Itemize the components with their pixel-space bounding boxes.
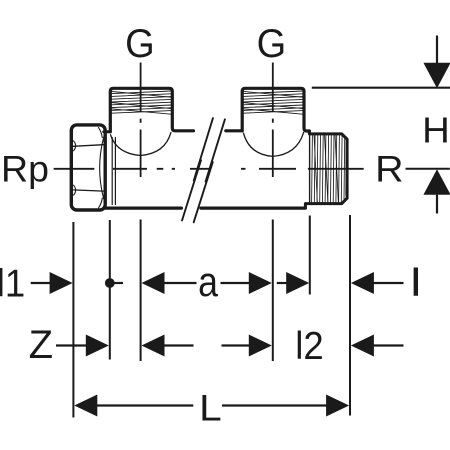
hex nut chamfer arc middle face right <box>100 137 104 199</box>
svg-text:l: l <box>410 262 421 304</box>
break line lower pair <box>182 160 201 220</box>
socket end line 2 (nut/body joint) <box>114 138 116 205</box>
bore arc under port G2 <box>244 132 304 156</box>
row1 a right arrowhead <box>249 272 272 294</box>
H dimension down-arrow stem <box>436 36 438 64</box>
dimension row 3: L left stem <box>97 404 194 406</box>
extension line E3 (port G1 axis) <box>140 220 142 362</box>
hex nut face line lower <box>73 190 104 191</box>
hex nut chamfer arc left lower <box>74 185 76 195</box>
extension line E5 (thread start) <box>309 216 311 295</box>
dimension row 2: Z leader line <box>56 344 86 346</box>
row1 reference dot <box>105 278 115 288</box>
break line upper pair <box>194 118 213 180</box>
hex nut face line upper <box>73 145 104 147</box>
port G2 vertical centerline <box>272 63 274 178</box>
row2 right arrowhead <box>249 335 272 357</box>
H dimension up arrowhead <box>423 169 450 194</box>
hex nut (Rp union nut) outer outline <box>71 125 105 210</box>
port G1 thread hatch <box>112 91 172 114</box>
port G1 vertical centerline <box>140 63 142 178</box>
extension line E6 (thread end) <box>349 215 351 416</box>
port G2 outline <box>242 88 309 131</box>
svg-text:G: G <box>125 22 155 66</box>
dimension row 1: dot stub <box>110 282 123 284</box>
svg-text:a: a <box>198 259 218 305</box>
port G2 thread hatch <box>243 91 302 114</box>
row3 L right arrowhead <box>326 395 349 417</box>
hex nut chamfer arc bottom face right <box>99 198 103 208</box>
body top edge between breaks <box>226 129 242 132</box>
centerline segment right of R label <box>406 168 450 170</box>
row2 Z arrowhead <box>86 335 109 357</box>
dimension row 2: l2 stem <box>373 344 403 346</box>
dimension row 1: a right stem <box>221 282 250 284</box>
svg-text:Rp: Rp <box>1 147 49 189</box>
body bottom edge right of break <box>201 207 306 210</box>
dimension row 2: left stem <box>164 344 194 346</box>
row1 thread-start arrowhead <box>286 272 309 294</box>
socket end line 1 (nut/body joint) <box>111 138 113 205</box>
extension line E2 (body start) <box>109 220 111 360</box>
svg-text:l2: l2 <box>295 324 323 367</box>
dimension row 3: L right stem <box>222 404 327 406</box>
dimension row 2: right stem <box>222 344 250 346</box>
hex nut chamfer arc top face right <box>99 128 103 138</box>
H dimension up-arrow stem <box>436 195 438 214</box>
svg-text:G: G <box>257 22 287 66</box>
horizontal centerline (dash-dot) <box>54 168 364 170</box>
row1 l1 arrowhead <box>50 272 73 294</box>
svg-text:Z: Z <box>29 323 53 367</box>
bore arc under port G1 <box>111 133 171 156</box>
male thread R hatch <box>312 135 347 204</box>
row1 a left arrowhead <box>142 272 165 294</box>
dimension row 1: a left stem <box>164 282 197 284</box>
hex nut chamfer arc left upper <box>74 141 76 151</box>
svg-text:R: R <box>375 148 403 190</box>
row2 left arrowhead <box>142 335 165 357</box>
thread R start vertical line <box>309 134 311 204</box>
svg-text:H: H <box>422 109 450 150</box>
extension line E4 (port G2 axis) <box>272 220 274 362</box>
extension line E1 (nut face) <box>72 222 74 418</box>
row1 l arrowhead <box>351 272 374 294</box>
body bottom edge left of break <box>104 207 181 210</box>
svg-text:L: L <box>199 388 222 429</box>
dimension row 1: l1 leader line <box>31 282 51 284</box>
H dimension down arrowhead <box>423 63 450 88</box>
dimension row 1: stem to thread start <box>277 282 287 284</box>
port G1 outline (left edge, top, right edge) <box>110 88 193 132</box>
H dimension top reference line <box>312 87 450 89</box>
row3 L left arrowhead <box>74 395 97 417</box>
male thread R outline (top, end face with chamfers, bottom) <box>305 131 347 208</box>
svg-text:l1: l1 <box>0 262 25 305</box>
dimension row 1: l stem <box>373 282 403 284</box>
row2 l2 arrowhead <box>351 335 374 357</box>
body ledge between nut and port 1 <box>104 130 111 133</box>
